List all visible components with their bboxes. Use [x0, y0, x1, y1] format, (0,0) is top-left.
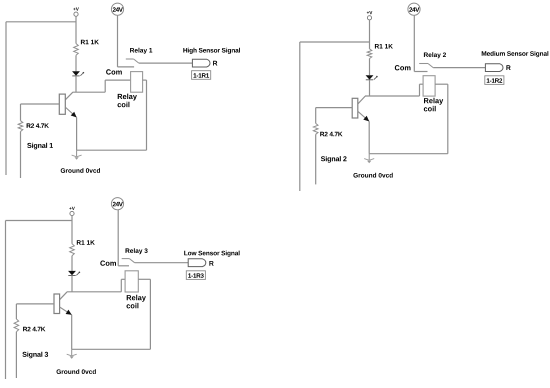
- wire: base lead down to R2: [15, 304, 17, 319]
- power 24V supply circuit 3: [111, 198, 123, 210]
- power +V supply circuit 1: [73, 7, 79, 43]
- wire: coil right lead down to ground rail: [435, 84, 448, 154]
- label: R pin: [213, 61, 217, 66]
- label box 1-1R3: [186, 271, 205, 280]
- relay coil K1: [131, 72, 143, 93]
- label: Com circuit 2: [395, 65, 411, 70]
- wire: coil right lead down to ground rail: [143, 80, 147, 150]
- power 24V supply circuit 2: [408, 3, 420, 15]
- wire: coil left lead: [105, 80, 130, 92]
- wire: transistor collector diagonal: [60, 292, 67, 300]
- label: Com circuit 3: [100, 261, 116, 266]
- wire: coil left lead: [121, 279, 125, 292]
- wire: bottom ground rail: [369, 153, 448, 155]
- label: Relay 2: [424, 52, 446, 58]
- wire: transistor emitter diagonal with arrow: [60, 307, 72, 315]
- wire: base lead down to R2: [315, 108, 317, 124]
- label: Ground 0vcd circuit 1: [61, 168, 100, 173]
- wire: relay common stub: [118, 265, 129, 267]
- wire: R2 down (signal input): [15, 332, 17, 378]
- label: Relay coil: [127, 295, 146, 309]
- label: Relay coil: [424, 98, 443, 112]
- wire: 24V down to relay common: [117, 15, 119, 67]
- resistor R1 1K circuit 3: [70, 240, 95, 256]
- wire: top rail to +V: [6, 220, 73, 222]
- wire: R1 to LED: [369, 59, 371, 76]
- wire: transistor emitter diagonal with arrow: [65, 107, 76, 117]
- wire: 24V down to relay common: [117, 210, 119, 266]
- wire: 24V down to relay common: [413, 15, 415, 71]
- resistor R1 1K circuit 1: [74, 40, 99, 56]
- wire: base from R2: [316, 107, 353, 109]
- wire: emitter down to ground rail: [368, 121, 370, 153]
- wire: coil right lead down to ground rail: [138, 279, 150, 349]
- wire: base lead down to R2: [20, 104, 22, 121]
- label: High Sensor Signal: [183, 48, 240, 54]
- wire: contact output to connector: [135, 262, 189, 264]
- wire: collector node to coil jog: [67, 291, 122, 293]
- power +V supply circuit 2: [367, 11, 373, 49]
- transistor Q1 (NPN): [59, 94, 65, 114]
- connector output plug circuit 2: [485, 64, 503, 72]
- wire: emitter down to ground rail: [76, 117, 78, 150]
- resistor R2 4.7K circuit 1: [18, 121, 49, 132]
- label: Signal 1: [27, 143, 53, 150]
- relay contact (switch) Relay 2: [419, 64, 433, 68]
- wire: top rail to +V: [300, 41, 370, 43]
- label: R pin: [506, 65, 510, 70]
- transistor Q2 (NPN): [352, 98, 358, 118]
- LED D2: [366, 75, 378, 80]
- wire: R2 down (signal input): [315, 134, 317, 184]
- label: Signal 2: [321, 156, 347, 163]
- relay contact (switch) Relay 1: [126, 59, 139, 63]
- label: R pin: [209, 261, 213, 266]
- ground symbol circuit 3: [67, 349, 77, 359]
- label: Relay coil: [118, 94, 137, 108]
- label: Relay 1: [130, 48, 152, 54]
- wire: transistor emitter diagonal with arrow: [358, 111, 369, 121]
- wire: base from R2: [21, 103, 60, 105]
- wire: LED to collector node: [369, 80, 371, 96]
- label: Ground 0vcd circuit 2: [353, 173, 392, 178]
- power 24V supply circuit 1: [111, 3, 123, 15]
- wire: emitter down to ground rail: [71, 315, 73, 350]
- wire: top rail to +V: [6, 21, 76, 23]
- wire: Signal 1 input left vertical: [5, 22, 7, 175]
- relay coil K2: [423, 76, 435, 96]
- wire: Signal 3 input left vertical: [5, 221, 7, 380]
- wire: Signal 2 input left vertical: [299, 42, 301, 191]
- wire: contact output to connector: [433, 67, 485, 69]
- wire: collector node to coil jog: [365, 95, 420, 97]
- wire: contact output to connector: [139, 62, 193, 64]
- wire: coil left lead: [420, 84, 424, 96]
- wire: transistor collector diagonal: [65, 92, 72, 100]
- resistor R2 4.7K circuit 2: [313, 123, 342, 136]
- wire: LED to collector node: [75, 76, 77, 92]
- wire: R1 to LED: [75, 55, 77, 71]
- label: Ground 0vcd circuit 3: [57, 369, 96, 374]
- ground symbol circuit 1: [72, 150, 82, 160]
- label: Medium Sensor Signal: [482, 51, 549, 57]
- label box 1-1R1: [192, 71, 211, 80]
- transistor Q3 (NPN): [54, 294, 60, 314]
- wire: R2 down (signal input): [20, 132, 22, 179]
- wire: relay common stub: [118, 66, 135, 68]
- label: Low Sensor Signal: [184, 251, 239, 257]
- label: Com circuit 1: [106, 69, 122, 74]
- relay coil K3: [125, 271, 138, 292]
- LED D1: [72, 71, 84, 76]
- wire: bottom ground rail: [72, 348, 151, 350]
- ground symbol circuit 2: [364, 154, 374, 164]
- label: Relay 3: [126, 248, 148, 254]
- wire: bottom ground rail: [77, 149, 147, 151]
- LED D3: [68, 271, 80, 276]
- power +V supply circuit 3: [69, 207, 75, 244]
- resistor R2 4.7K circuit 3: [14, 319, 45, 332]
- wire: R1 to LED: [71, 256, 73, 271]
- relay contact (switch) Relay 3: [122, 259, 135, 263]
- label box 1-1R2: [485, 76, 504, 85]
- wire: relay common stub: [414, 71, 427, 73]
- label: Signal 3: [22, 352, 48, 359]
- resistor R1 1K circuit 2: [367, 44, 393, 59]
- wire: collector node to coil jog: [73, 91, 106, 93]
- wire: base from R2: [16, 303, 54, 305]
- connector output plug circuit 1: [192, 59, 210, 67]
- wire: LED to collector node: [71, 276, 73, 292]
- wire: transistor collector diagonal: [358, 96, 365, 104]
- connector output plug circuit 3: [188, 259, 206, 267]
